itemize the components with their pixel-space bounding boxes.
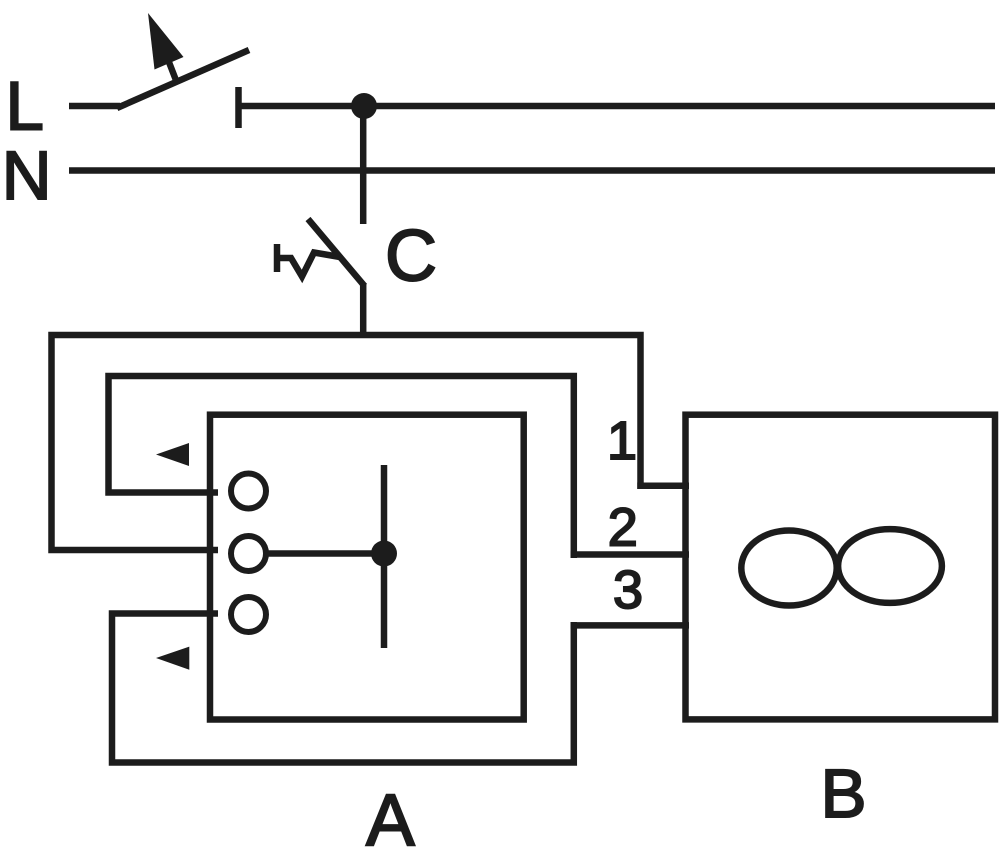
switch blade on L line xyxy=(117,50,249,108)
switch C blade xyxy=(308,219,365,286)
wire 1 to box B xyxy=(637,482,689,489)
wire N xyxy=(69,167,995,174)
svg-text:2: 2 xyxy=(608,498,638,558)
terminal bar on L line xyxy=(235,87,242,128)
box B enclosure xyxy=(686,415,996,720)
fan motor ellipse right xyxy=(838,529,942,603)
contact circle middle xyxy=(231,536,266,571)
contact circle bottom xyxy=(231,597,266,632)
svg-text:3: 3 xyxy=(613,560,643,620)
wire 2 to box B xyxy=(571,551,689,558)
wire from switch C down to box A loop xyxy=(360,283,367,338)
contact circle top xyxy=(231,474,266,509)
relay common contact line xyxy=(269,550,385,557)
svg-text:C: C xyxy=(385,217,437,297)
svg-text:1: 1 xyxy=(607,411,637,471)
fan motor ellipse left xyxy=(741,531,836,606)
junction dot on L line xyxy=(351,93,377,119)
loop 2: top contact to terminal 2 xyxy=(109,376,574,558)
arrow tail on blade xyxy=(167,57,176,79)
triangle arrow lower (motion indicator) xyxy=(156,647,189,670)
arrowhead of switch actuation arrow xyxy=(148,13,184,70)
relay pivot dot xyxy=(371,541,397,567)
svg-text:N: N xyxy=(2,137,52,214)
wire L left segment xyxy=(69,103,120,110)
squiggle zigzag xyxy=(277,253,340,277)
relay box of A xyxy=(210,415,524,720)
wire drop from junction to switch C xyxy=(360,106,367,224)
relay actuator vertical line xyxy=(381,465,388,648)
svg-text:B: B xyxy=(821,755,867,832)
bottom loop: bottom contact to terminal 3 xyxy=(112,614,574,763)
svg-text:L: L xyxy=(6,68,44,145)
squiggle anchor bar xyxy=(274,244,281,272)
wire L right segment xyxy=(239,103,996,110)
triangle arrow upper (motion indicator) xyxy=(156,443,189,466)
wire 3 to box B xyxy=(571,622,689,629)
outer loop of box A (feed to middle contact) + wire 1 branch xyxy=(52,335,641,550)
svg-text:A: A xyxy=(366,781,415,862)
